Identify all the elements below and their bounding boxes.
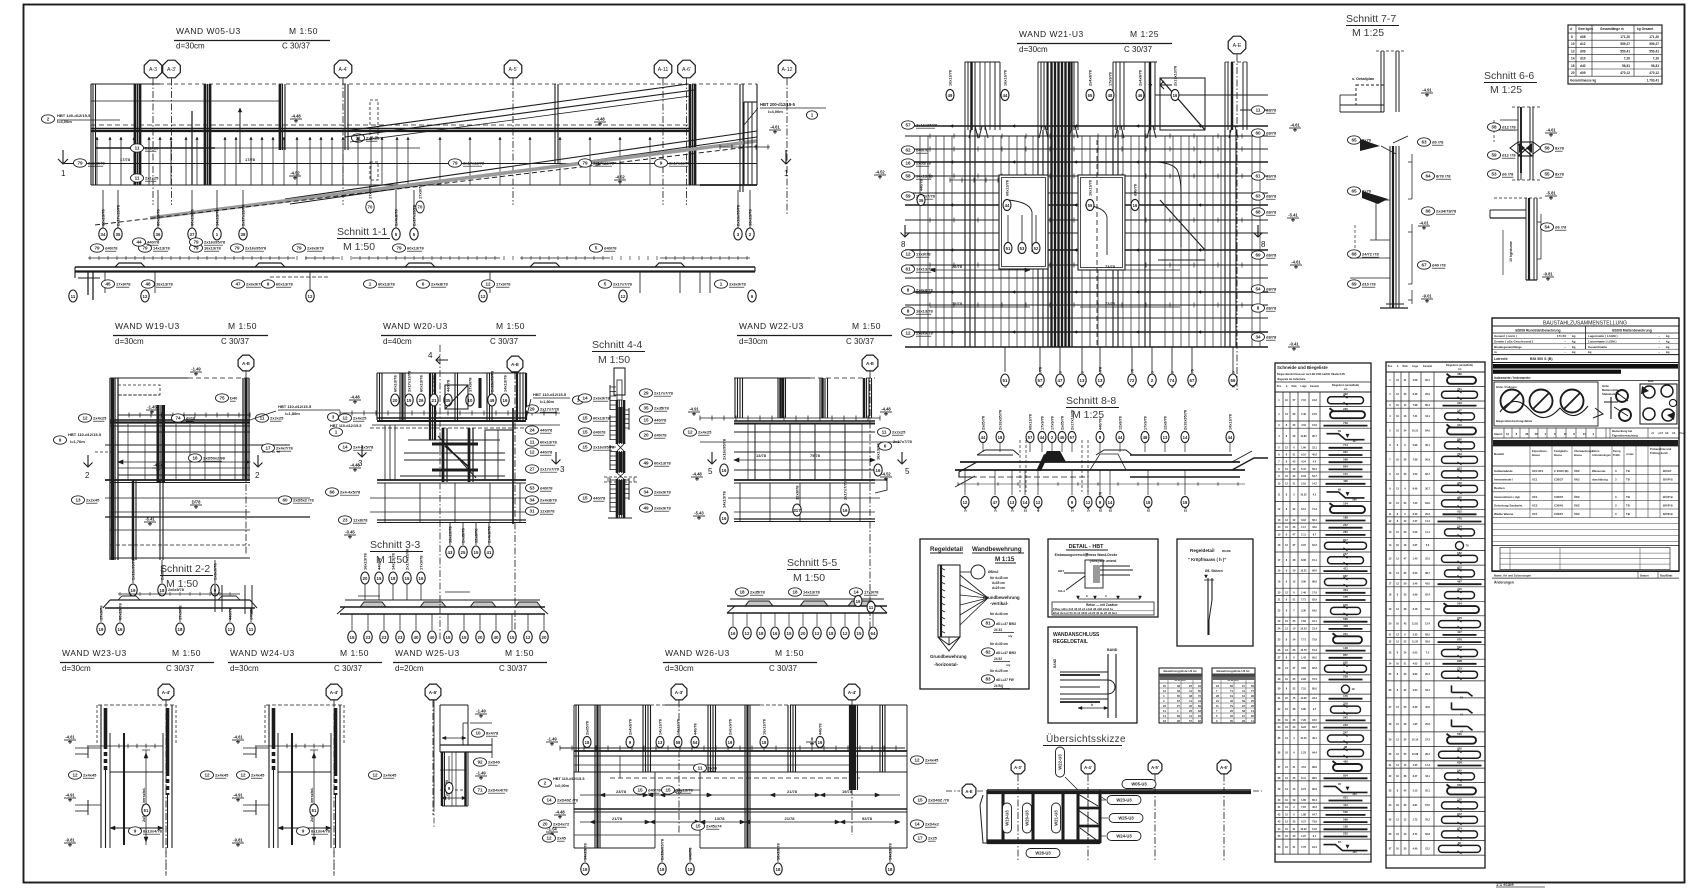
svg-text:71.3: 71.3 — [1312, 508, 1317, 511]
callout 9 below section 1-1 — [262, 280, 294, 288]
svg-text:79: 79 — [452, 161, 458, 166]
svg-text:14x13/78: 14x13/78 — [503, 375, 508, 392]
section mark 7 at W21 top — [1148, 81, 1172, 92]
svg-text:559,27: 559,27 — [1649, 42, 1659, 46]
svg-text:47: 47 — [993, 500, 998, 505]
svg-text:-4.91: -4.91 — [233, 793, 243, 798]
svg-text:2x4x8/78: 2x4x8/78 — [540, 498, 557, 503]
svg-text:Schnitt 3-3: Schnitt 3-3 — [370, 539, 420, 551]
svg-text:171: 171 — [1343, 472, 1348, 476]
svg-text:23.4: 23.4 — [1312, 697, 1317, 700]
callout 317 in W22 — [793, 485, 801, 516]
svg-text:M 1:50: M 1:50 — [343, 241, 375, 253]
svg-text:A-E: A-E — [242, 361, 250, 366]
svg-text:14: 14 — [914, 822, 920, 827]
callout 11 left — [131, 144, 160, 152]
svg-text:8x4/78: 8x4/78 — [486, 731, 499, 736]
svg-text:-4.61: -4.61 — [770, 125, 780, 130]
svg-text:79: 79 — [77, 161, 83, 166]
section mark 4 at W20 top — [428, 345, 448, 640]
callout 6 below section 1-1 — [417, 280, 449, 288]
svg-text:105: 105 — [1352, 850, 1357, 854]
svg-text:46: 46 — [1138, 93, 1143, 98]
svg-text:WAND W20-U3: WAND W20-U3 — [383, 321, 448, 331]
svg-text:16: 16 — [856, 599, 861, 604]
callout 14 left section 4-4 — [579, 394, 611, 402]
svg-text:9.81: 9.81 — [1413, 804, 1418, 807]
svg-text:-0.41: -0.41 — [1289, 342, 1299, 347]
svg-text:Bauteil: Bauteil — [1494, 452, 1504, 456]
svg-text:-4.61: -4.61 — [1290, 123, 1300, 128]
svg-text:1.43: 1.43 — [1301, 656, 1306, 659]
svg-text:M 1:15: M 1:15 — [995, 556, 1015, 563]
svg-text:89.5: 89.5 — [1312, 777, 1317, 780]
callout 57 above section 8-8 — [1026, 414, 1034, 452]
svg-text:8: 8 — [907, 309, 910, 314]
svg-text:12: 12 — [481, 294, 486, 299]
svg-text:12: 12 — [546, 836, 552, 841]
wall W21 level marks right — [1287, 123, 1301, 223]
svg-text:20: 20 — [393, 398, 398, 403]
svg-text:Beton: Beton — [1592, 449, 1600, 453]
callout 25 below W20 — [459, 522, 467, 558]
svg-text:A3: A3 — [1665, 431, 1669, 435]
svg-text:55.2: 55.2 — [1425, 818, 1430, 821]
svg-text:7.88: 7.88 — [1413, 458, 1418, 461]
svg-text:595: 595 — [1343, 617, 1348, 621]
svg-text:91.8: 91.8 — [1312, 399, 1317, 402]
svg-text:sty: sty — [1006, 663, 1011, 667]
callout 9 bottom of W23-U3 — [129, 827, 163, 835]
svg-text:29: 29 — [529, 407, 535, 412]
svg-text:XC1: XC1 — [1532, 495, 1538, 499]
svg-text:418: 418 — [1343, 624, 1348, 628]
svg-text:12: 12 — [914, 758, 920, 763]
svg-text:74: 74 — [175, 416, 181, 421]
svg-text:55.1: 55.1 — [1425, 789, 1430, 792]
svg-text:14: 14 — [1183, 435, 1188, 440]
wall W19 level marks — [144, 367, 202, 527]
svg-text:BAUSTAHLZUSAMMENSTELLUNG: BAUSTAHLZUSAMMENSTELLUNG — [1543, 321, 1627, 327]
overview sketch W22 label — [1056, 747, 1079, 790]
small dim arrows W05 mid — [720, 145, 1000, 183]
svg-text:2xD4x2: 2xD4x2 — [925, 822, 940, 827]
svg-text:C 30/37: C 30/37 — [334, 664, 363, 673]
wall W05-U3 title block — [174, 26, 330, 51]
callout 13 below section 8-8 — [1008, 470, 1016, 512]
svg-text:17x9/78: 17x9/78 — [1051, 416, 1055, 430]
svg-text:2x2x45: 2x2x45 — [86, 498, 100, 503]
callout 14 below section 8-8 — [1021, 470, 1029, 512]
svg-text:12x8/78: 12x8/78 — [1119, 416, 1123, 430]
callout 61 left W21 — [902, 265, 934, 273]
callout 44 above section 1-1 — [133, 238, 161, 246]
svg-text:16x13/78: 16x13/78 — [763, 719, 767, 735]
svg-text:18: 18 — [888, 867, 893, 872]
svg-text:440/78: 440/78 — [228, 607, 233, 620]
wall W20 body — [340, 408, 560, 524]
svg-text:Bfsd 3x4 u2 23 44 x2 3344 u3 2: Bfsd 3x4 u2 23 44 x2 3344 u3 22 33 4u 22… — [1053, 611, 1117, 615]
callout 3 below W05 — [734, 190, 742, 240]
svg-text:11.25: 11.25 — [1412, 641, 1419, 644]
section Schnitt 2-2 title — [160, 563, 213, 590]
callout 19 below section 2-2 — [97, 605, 105, 635]
svg-text:d8/78: d8/78 — [1266, 174, 1277, 179]
callout 18 below section 8-8 — [1181, 470, 1189, 512]
callout 79 mid1 — [449, 159, 485, 167]
svg-text:17x9/78: 17x9/78 — [178, 605, 183, 620]
svg-text:16: 16 — [118, 627, 123, 632]
svg-text:4.4: 4.4 — [1313, 461, 1317, 464]
svg-text:d8/78: d8/78 — [1266, 108, 1277, 113]
svg-text:61.3: 61.3 — [1312, 649, 1317, 652]
callout 18 above section 3-3 — [389, 553, 397, 600]
svg-text:2x16x95/78: 2x16x95/78 — [204, 240, 226, 245]
callout 26 top W20 — [417, 375, 425, 406]
svg-text:18: 18 — [585, 740, 590, 745]
svg-text:12: 12 — [745, 631, 750, 636]
svg-text:3.06: 3.06 — [1301, 581, 1306, 584]
svg-text:16x13/78: 16x13/78 — [676, 788, 693, 793]
callout below section 5-5 #8 — [841, 613, 849, 639]
callout 54 top W26 — [691, 723, 699, 747]
svg-text:HBT 110-d12/15-5: HBT 110-d12/15-5 — [553, 777, 584, 781]
svg-text:26.9: 26.9 — [1425, 393, 1430, 396]
svg-text:d=30cm: d=30cm — [230, 664, 259, 673]
svg-text:17: 17 — [265, 446, 271, 451]
svg-text:M 1:50: M 1:50 — [793, 572, 825, 584]
svg-text:Biegeform (unmaBstb): Biegeform (unmaBstb) — [1332, 384, 1359, 387]
axis marker A-12 — [778, 60, 796, 215]
svg-text:12: 12 — [82, 416, 88, 421]
callout 41 below W20 — [485, 522, 493, 558]
svg-text:21/78: 21/78 — [787, 789, 798, 794]
svg-text:18: 18 — [998, 435, 1003, 440]
wall W05 column strips — [93, 84, 743, 192]
callout 16 inner W21 — [1171, 66, 1179, 101]
svg-text:18: 18 — [178, 627, 183, 632]
wall W23-U3 title block — [60, 648, 214, 673]
svg-text:14x13/78: 14x13/78 — [153, 246, 170, 251]
svg-text:2x16x95/78: 2x16x95/78 — [916, 123, 938, 128]
callout 79 span labels — [120, 157, 256, 162]
svg-text:ÜK2: ÜK2 — [1574, 502, 1580, 507]
svg-text:-1.49: -1.49 — [191, 367, 201, 372]
DETAIL HBT box — [1048, 539, 1158, 617]
svg-text:43.1: 43.1 — [1425, 775, 1430, 778]
svg-text:Gew kg/m: Gew kg/m — [1578, 27, 1593, 31]
svg-text:69: 69 — [1351, 282, 1357, 287]
svg-text:15: 15 — [510, 635, 515, 640]
svg-text:1.46: 1.46 — [1301, 591, 1306, 594]
svg-text:M 1:25: M 1:25 — [1490, 84, 1522, 96]
svg-text:417: 417 — [1457, 630, 1462, 634]
svg-text:1: 1 — [811, 113, 814, 118]
svg-text:49.1: 49.1 — [1312, 737, 1317, 740]
wall W23-U3 body — [87, 705, 176, 876]
svg-text:2x16x95/78: 2x16x95/78 — [245, 246, 267, 251]
svg-text:Gesamtmasse kg: Gesamtmasse kg — [1570, 79, 1596, 83]
svg-text:11: 11 — [135, 146, 140, 151]
svg-text:35: 35 — [446, 398, 451, 403]
svg-text:2x4x8/78: 2x4x8/78 — [916, 288, 933, 293]
svg-text:2.97: 2.97 — [1413, 544, 1418, 547]
svg-text:8: 8 — [901, 240, 906, 249]
svg-text:12: 12 — [143, 294, 148, 299]
svg-text:HBT 200-d12/18-5: HBT 200-d12/18-5 — [760, 102, 796, 107]
svg-text:73/78: 73/78 — [1105, 264, 1116, 269]
svg-text:34: 34 — [643, 490, 649, 495]
svg-text:10.98: 10.98 — [1412, 753, 1419, 756]
svg-text:5.13: 5.13 — [1301, 508, 1306, 511]
svg-text:2x4x25: 2x4x25 — [698, 430, 712, 435]
svg-text:85.0: 85.0 — [1312, 688, 1317, 691]
svg-text:9: 9 — [267, 282, 270, 287]
svg-text:M 1:25: M 1:25 — [1352, 27, 1384, 39]
svg-text:2x4x45: 2x4x45 — [925, 758, 939, 763]
svg-text:64: 64 — [871, 631, 876, 636]
overview sketch wall labels — [1003, 803, 1061, 833]
svg-text:59: 59 — [1491, 153, 1497, 158]
svg-text:35: 35 — [643, 406, 649, 411]
svg-text:d40/78: d40/78 — [249, 607, 254, 620]
svg-text:1: 1 — [369, 282, 372, 287]
wall W21-U3 title block — [1017, 29, 1172, 54]
wall W19 callouts — [54, 394, 315, 504]
svg-text:kg: kg — [1572, 334, 1576, 338]
callout 11b left — [131, 174, 160, 182]
svg-text:70: 70 — [368, 205, 373, 210]
svg-text:5.47: 5.47 — [1301, 468, 1306, 471]
reinforcement list mini table left — [1159, 668, 1202, 723]
axis marker A-6' — [678, 60, 696, 205]
callout 2 below W21 — [1148, 347, 1156, 388]
svg-text:d=30cm: d=30cm — [62, 664, 91, 673]
svg-text:171,20: 171,20 — [1620, 35, 1630, 39]
svg-text:82.7: 82.7 — [1425, 473, 1430, 476]
axis marker A-5' — [504, 60, 522, 205]
svg-text:M 1:50: M 1:50 — [172, 648, 201, 658]
svg-text:2.64: 2.64 — [1413, 689, 1418, 692]
svg-text:d=30cm: d=30cm — [115, 337, 144, 346]
svg-text:Schnitt 1-1: Schnitt 1-1 — [337, 226, 387, 238]
svg-text:d40/78: d40/78 — [604, 246, 617, 251]
svg-text:1.40: 1.40 — [1413, 557, 1418, 560]
wall W22-U3 title block — [737, 321, 892, 346]
svg-text:2xd5/78: 2xd5/78 — [586, 721, 590, 735]
svg-text:2.19: 2.19 — [1301, 482, 1306, 485]
svg-text:66: 66 — [329, 490, 335, 495]
callout below section 5-5 #5 — [799, 613, 807, 639]
svg-text:1:1 scale: 1:1 scale — [1496, 882, 1514, 887]
svg-text:12: 12 — [1086, 500, 1091, 505]
callout 12 left W21 — [902, 250, 932, 258]
svg-text:7.87: 7.87 — [1301, 806, 1306, 809]
svg-text:71: 71 — [477, 788, 483, 793]
svg-text:6: 6 — [884, 444, 887, 449]
svg-text:565: 565 — [1457, 732, 1462, 736]
svg-text:60x13/78: 60x13/78 — [156, 209, 161, 226]
svg-text:10: 10 — [475, 731, 481, 736]
svg-text:16: 16 — [731, 631, 736, 636]
svg-text:15: 15 — [474, 550, 479, 555]
svg-text:A-4': A-4' — [330, 690, 339, 695]
svg-text:2x16x95/78: 2x16x95/78 — [131, 558, 136, 580]
svg-text:-4.61: -4.61 — [1546, 128, 1556, 133]
svg-text:107: 107 — [1352, 439, 1357, 443]
axis marker A-E of W20 — [507, 356, 523, 640]
svg-text:17.4: 17.4 — [1425, 764, 1430, 767]
wall W25 body — [434, 700, 492, 828]
svg-text:11: 11 — [1256, 108, 1261, 113]
svg-text:2x4x8/78: 2x4x8/78 — [394, 209, 399, 226]
svg-text:13: 13 — [1010, 500, 1015, 505]
callout 5 below W05 — [410, 190, 418, 240]
callout 60 right W21 — [1252, 129, 1278, 137]
svg-text:55: 55 — [1088, 203, 1093, 208]
callout 53 right W20 — [526, 484, 554, 492]
callout below section 5-5 #10 — [869, 613, 877, 639]
svg-text:16: 16 — [1133, 203, 1138, 208]
svg-text:BSt 500 S (B): BSt 500 S (B) — [1530, 357, 1553, 361]
svg-text:-4.52: -4.52 — [881, 472, 891, 477]
svg-text:98.9: 98.9 — [1312, 766, 1317, 769]
svg-text:1.88: 1.88 — [1301, 813, 1306, 816]
callout 9 mid — [655, 159, 691, 167]
svg-text:24/72 /78: 24/72 /78 — [1362, 252, 1379, 257]
svg-text:23: 23 — [382, 635, 387, 640]
svg-text:TB: TB — [1626, 503, 1630, 507]
svg-text:XC4 XF1: XC4 XF1 — [1532, 469, 1544, 473]
svg-text:72.4: 72.4 — [1312, 678, 1317, 681]
svg-text:Bemerkung bei: Bemerkung bei — [1612, 429, 1632, 433]
svg-text:Gesamt: Gesamt — [1423, 365, 1432, 368]
svg-text:2xD40Z /78: 2xD40Z /78 — [928, 798, 950, 803]
svg-text:l=0,00m: l=0,00m — [555, 784, 570, 788]
svg-text:2x4x8/78: 2x4x8/78 — [1089, 70, 1093, 86]
svg-text:8x78: 8x78 — [1362, 189, 1372, 194]
svg-text:Biegeform (unmaBstb): Biegeform (unmaBstb) — [1446, 364, 1473, 367]
svg-text:18: 18 — [583, 867, 588, 872]
svg-text:18: 18 — [391, 576, 396, 581]
wall W20 top columns — [377, 373, 526, 440]
callout below section 3-3 #3 — [396, 614, 404, 643]
svg-text:2x4x8/78: 2x4x8/78 — [487, 526, 492, 543]
svg-text:11.80: 11.80 — [1300, 435, 1307, 438]
svg-text:d=20cm: d=20cm — [395, 664, 424, 673]
svg-text:2xd5/78: 2xd5/78 — [654, 406, 669, 411]
svg-text:Einbauungsversch津ttess Wand-D: Einbauungsversch津ttess Wand-Decke — [1055, 552, 1118, 557]
svg-text:8.46: 8.46 — [1413, 706, 1418, 709]
svg-text:C 30/37: C 30/37 — [1124, 45, 1153, 54]
section 1-1 slab body — [75, 263, 755, 300]
callout 57 below W21 — [1036, 347, 1044, 388]
svg-text:WAND W26-U3: WAND W26-U3 — [665, 648, 730, 658]
svg-text:18: 18 — [829, 631, 834, 636]
callout below section 3-3 #6 — [444, 614, 452, 643]
svg-text:2x17x13/78: 2x17x13/78 — [593, 161, 615, 166]
svg-text:566: 566 — [1352, 497, 1357, 501]
section 2-2 slab — [103, 585, 257, 614]
callout below section 3-3 #4 — [412, 614, 420, 643]
callout 12 below section 1-1 — [482, 280, 512, 288]
svg-text:HBT 110-d12/15-5: HBT 110-d12/15-5 — [68, 432, 102, 437]
axis marker A-E of W19 — [238, 355, 254, 555]
svg-text:59: 59 — [905, 194, 911, 199]
svg-text:16x13/78: 16x13/78 — [748, 209, 753, 226]
callout 46 below section 1-1 — [142, 280, 174, 288]
svg-text:2x17x13/78: 2x17x13/78 — [463, 161, 485, 166]
section 4-4 wall strip — [604, 368, 638, 518]
svg-text:d6 /78: d6 /78 — [1502, 172, 1514, 177]
svg-text:16: 16 — [419, 576, 424, 581]
svg-text:2x4x45: 2x4x45 — [215, 773, 229, 778]
svg-text:15: 15 — [377, 576, 382, 581]
callout below section 5-5 #9 — [855, 613, 863, 639]
svg-text:14: 14 — [1023, 500, 1028, 505]
svg-text:34: 34 — [529, 498, 535, 503]
section 5-5 slab — [727, 599, 887, 613]
callout 16 in W22 — [720, 491, 728, 524]
svg-text:40.3: 40.3 — [1312, 806, 1317, 809]
callout 20 above section 3-3 — [361, 553, 369, 600]
axis marker A-3' of W26 — [671, 684, 687, 835]
svg-text:53: 53 — [1020, 246, 1025, 251]
svg-text:2x4x8/78: 2x4x8/78 — [1139, 70, 1143, 86]
callout 34 right W21 — [1252, 333, 1278, 341]
svg-text:10.14: 10.14 — [1412, 739, 1419, 742]
svg-text:24 52: 24 52 — [994, 657, 1002, 661]
callout 12 right W20 — [526, 448, 554, 456]
callout 49 right section 4-4 — [640, 504, 672, 512]
callout 29 right W20 — [526, 405, 560, 413]
svg-text:57: 57 — [1028, 435, 1033, 440]
svg-text:10: 10 — [1564, 432, 1568, 436]
svg-text:C 30/37: C 30/37 — [282, 42, 311, 51]
svg-text:2: 2 — [255, 471, 260, 480]
svg-text:19/78: 19/78 — [842, 789, 853, 794]
svg-text:526: 526 — [1343, 810, 1348, 814]
svg-text:2x17x13/78: 2x17x13/78 — [116, 204, 121, 226]
svg-text:18: 18 — [759, 631, 764, 636]
svg-text:14: 14 — [546, 798, 552, 803]
wall W22 callouts — [684, 428, 913, 450]
svg-text:60x13/78: 60x13/78 — [407, 246, 424, 251]
section 8-8 vertical dashed separators — [1020, 440, 1088, 492]
axis marker A-4' — [334, 60, 352, 205]
wall W24-U3 body — [255, 705, 344, 876]
callout 19 below W19 — [129, 558, 137, 596]
svg-text:20: 20 — [478, 635, 483, 640]
wall W05 opening dashed rects — [370, 100, 378, 180]
svg-text:l=1,76m: l=1,76m — [70, 439, 85, 444]
svg-text:d40/78: d40/78 — [654, 433, 667, 438]
svg-text:2.27: 2.27 — [1413, 520, 1418, 523]
svg-text:Wasserun-: Wasserun- — [1592, 469, 1606, 473]
svg-text:15: 15 — [787, 631, 792, 636]
callout 14 above section 8-8 — [1181, 410, 1189, 452]
svg-text:631: 631 — [1343, 450, 1348, 454]
svg-text:6.1: 6.1 — [1313, 835, 1317, 838]
svg-text:-4.91: -4.91 — [689, 407, 699, 412]
svg-text:16x13/78: 16x13/78 — [949, 70, 953, 86]
svg-text:2x6x9/78: 2x6x9/78 — [916, 331, 933, 336]
svg-text:4.51: 4.51 — [1301, 766, 1306, 769]
callout 44 above section 8-8 — [1226, 414, 1234, 452]
svg-text:92: 92 — [477, 760, 483, 765]
callout below section 3-3 #10 — [508, 614, 516, 643]
callout 58 left W21 — [902, 172, 934, 180]
